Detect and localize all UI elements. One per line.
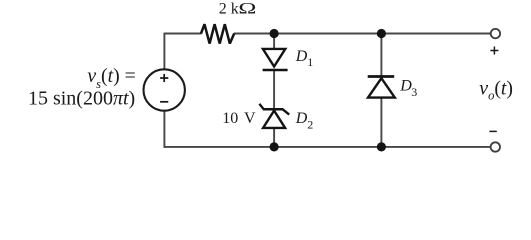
resistor R 2 kOhm zigzag [201, 24, 234, 43]
terminal bottom right open circle [491, 142, 500, 151]
svg-text:D: D [295, 110, 308, 127]
diode D1 triangle (pointing down) [263, 49, 285, 67]
wire top-left horizontal [164, 33, 201, 35]
svg-text:D: D [295, 48, 308, 65]
diode D1 cathode bar [263, 69, 288, 72]
node dot bottom D1 branch [270, 142, 279, 151]
wire left vertical upper [163, 33, 165, 70]
diode D3 cathode bar [368, 75, 395, 78]
svg-text:2: 2 [307, 117, 313, 131]
svg-text:2 k: 2 k [219, 1, 239, 18]
terminal top right open circle [491, 29, 500, 38]
svg-text:3: 3 [411, 85, 417, 99]
wire top node to D3 cathode [380, 34, 382, 77]
source plus sign [160, 77, 168, 79]
wire D1 cathode to D2 cathode [273, 70, 275, 109]
diode D3 triangle (pointing up) [368, 78, 395, 97]
svg-text:10: 10 [222, 110, 238, 127]
svg-text:Ω: Ω [238, 1, 256, 18]
svg-text:15 sin(200πt): 15 sin(200πt) [28, 88, 135, 110]
node dot bottom D3 branch [377, 142, 386, 151]
output plus sign [490, 50, 498, 52]
wire top middle (resistor to right terminal) [234, 33, 491, 35]
wire bottom horizontal [164, 146, 491, 148]
svg-text:1: 1 [307, 55, 313, 69]
wire left vertical lower [163, 111, 165, 148]
wire D2 anode to bottom node [273, 129, 275, 147]
node dot top D3 branch [377, 29, 386, 38]
source minus sign [160, 101, 168, 103]
output minus sign [489, 130, 496, 132]
svg-text:vo(t): vo(t) [479, 77, 513, 102]
zener diode D2 triangle (pointing up) [263, 111, 285, 128]
node dot top D1 branch [270, 29, 279, 38]
wire D3 anode to bottom node [380, 97, 382, 147]
voltage source vs circle [144, 69, 185, 110]
zener diode D2 cathode bar with bent ends [259, 104, 289, 115]
wire top node to D1 anode [273, 34, 275, 51]
svg-text:V: V [244, 110, 256, 127]
